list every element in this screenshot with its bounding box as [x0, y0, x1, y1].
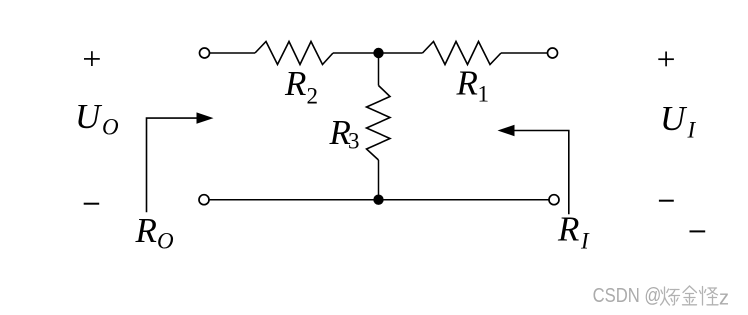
terminal top-left	[200, 48, 210, 58]
minus sign right lower	[690, 230, 706, 232]
resistor R3	[367, 86, 391, 161]
svg-text:O: O	[102, 114, 119, 139]
svg-text:U: U	[75, 97, 103, 136]
plus sign right	[658, 58, 674, 60]
svg-text:O: O	[157, 229, 174, 254]
svg-text:R: R	[135, 211, 157, 250]
svg-text:R: R	[284, 64, 306, 103]
wire R2 to node A	[333, 52, 423, 54]
node B (bottom junction dot)	[373, 195, 383, 205]
terminal top-right	[548, 48, 558, 58]
svg-text:2: 2	[307, 84, 319, 109]
wire top-left to R2	[210, 52, 255, 54]
svg-text:I: I	[580, 229, 590, 254]
wire R1 to top-right terminal	[501, 52, 548, 54]
svg-text:z: z	[719, 288, 729, 310]
svg-text:U: U	[660, 99, 688, 138]
watermark glyph lian	[661, 287, 680, 305]
wire node A to R3	[378, 53, 380, 86]
svg-text:CSDN @: CSDN @	[593, 285, 662, 307]
arrow R_I (pointing left)	[513, 131, 569, 215]
resistor R1	[423, 42, 502, 65]
terminal bottom-left	[199, 195, 209, 205]
terminal bottom-right	[549, 195, 559, 205]
minus sign right	[659, 200, 674, 202]
watermark glyph guai	[700, 287, 719, 306]
svg-text:3: 3	[348, 129, 360, 154]
watermark glyph jin	[683, 286, 697, 305]
plus sign left	[84, 58, 100, 60]
wire R3 to node B	[378, 160, 380, 200]
minus sign left	[84, 203, 100, 205]
svg-text:R: R	[557, 210, 579, 249]
arrow R_O (pointing right)	[147, 118, 199, 212]
svg-text:I: I	[687, 117, 697, 142]
resistor R2	[255, 42, 333, 65]
svg-text:1: 1	[478, 82, 490, 107]
wire bottom rail	[209, 199, 549, 201]
node A (top junction dot)	[373, 48, 383, 58]
svg-text:R: R	[456, 64, 478, 103]
